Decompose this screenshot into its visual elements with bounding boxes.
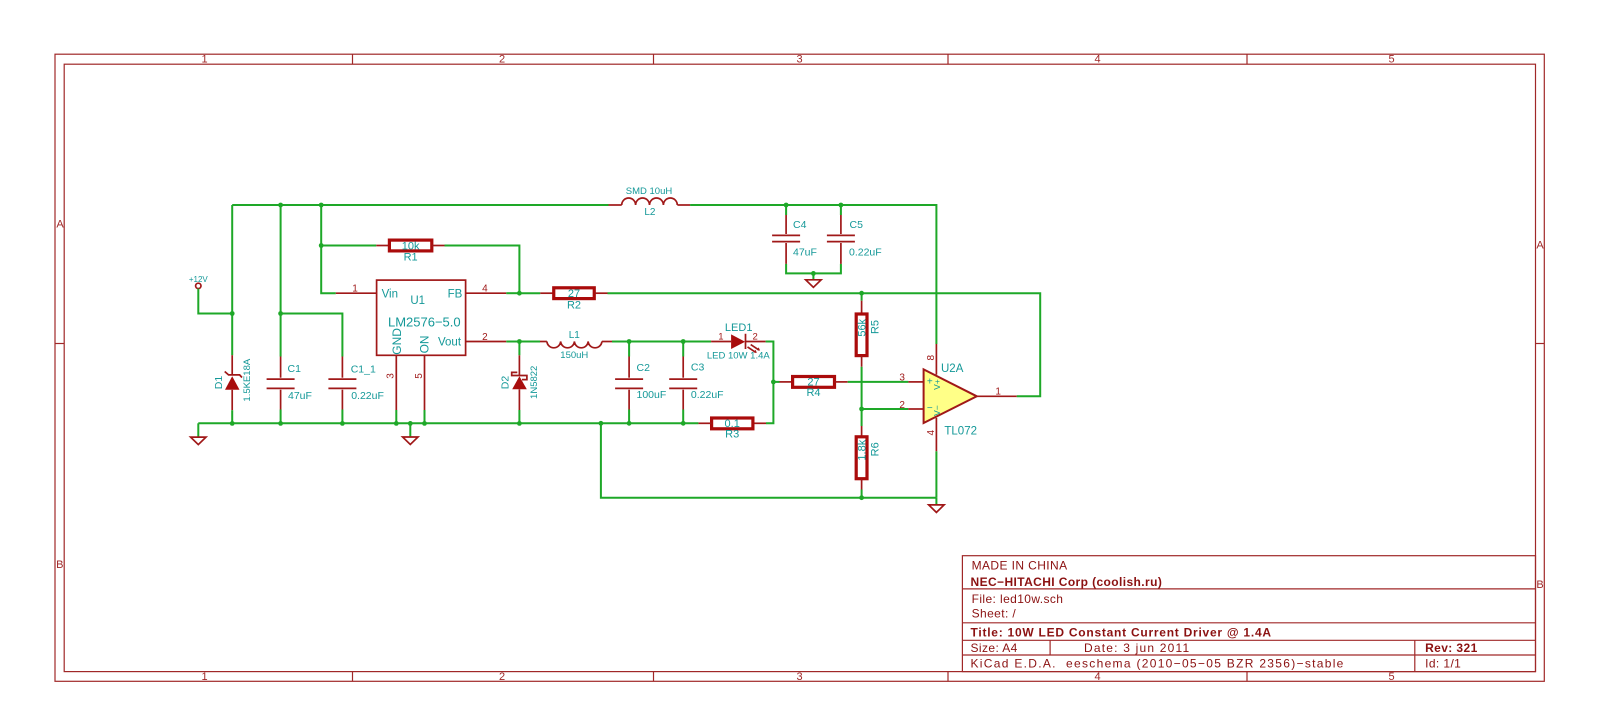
wire C1 vertical (280, 205, 282, 357)
svg-text:1: 1 (201, 671, 207, 683)
svg-text:KiCad E.D.A. eeschema (2010−0: KiCad E.D.A. eeschema (2010−05−05 BZR 23… (971, 657, 1345, 671)
node junction FB (517, 291, 522, 296)
op-amp U2A TL072 (899, 344, 1016, 451)
svg-text:4: 4 (1094, 54, 1100, 66)
svg-text:3: 3 (386, 373, 397, 379)
node junction R6 bottom (859, 495, 864, 500)
svg-text:1: 1 (718, 331, 723, 342)
svg-text:GND: GND (390, 328, 404, 355)
svg-text:R1: R1 (404, 251, 418, 263)
svg-text:150uH: 150uH (560, 350, 588, 361)
node junction R5 top (859, 291, 864, 296)
svg-text:2: 2 (499, 54, 505, 66)
svg-text:C2: C2 (637, 362, 651, 374)
wire top rail right segment to op-amp V+ (690, 205, 936, 344)
svg-text:NEC−HITACHI Corp (coolish.ru): NEC−HITACHI Corp (coolish.ru) (971, 575, 1163, 589)
svg-text:LED1: LED1 (725, 322, 753, 334)
node junction Vin top rail (319, 203, 324, 208)
wire R3 to ground rail (198, 422, 698, 424)
svg-text:5: 5 (414, 373, 425, 379)
svg-text:U1: U1 (410, 295, 425, 307)
svg-text:3: 3 (899, 373, 905, 384)
resistor R3 0.1 (698, 418, 766, 441)
node junction R4 tap (771, 380, 776, 385)
svg-text:R5: R5 (870, 320, 882, 334)
svg-text:A: A (1536, 240, 1544, 252)
capacitor C4 47uF (772, 205, 841, 273)
wire R1 to FB node (445, 246, 520, 294)
svg-text:L2: L2 (644, 207, 656, 218)
svg-text:LM2576−5.0: LM2576−5.0 (388, 314, 461, 329)
svg-text:0.22uF: 0.22uF (691, 389, 724, 401)
svg-text:R3: R3 (725, 429, 739, 441)
ground symbol op-amp (929, 498, 944, 513)
svg-text:C4: C4 (793, 219, 807, 231)
ground symbol under C4/C5 (806, 273, 821, 287)
svg-text:2: 2 (899, 400, 905, 411)
svg-text:ON: ON (418, 335, 432, 353)
svg-text:4: 4 (926, 429, 937, 435)
node junction R1 tap (319, 243, 324, 248)
svg-text:1N5822: 1N5822 (529, 366, 540, 399)
svg-text:0.22uF: 0.22uF (849, 247, 882, 259)
node junction pin2 tap (859, 407, 864, 412)
ground rail junctions (230, 421, 235, 426)
resistor R1 (321, 240, 444, 263)
wire R4 to op-amp pin3 (848, 381, 909, 383)
svg-text:1.5KE18A: 1.5KE18A (242, 358, 253, 401)
svg-text:R2: R2 (567, 300, 581, 312)
wire D1 vertical (231, 205, 233, 355)
svg-text:3: 3 (796, 54, 802, 66)
node junction Vout/D2 (517, 339, 522, 344)
resistor R2 (540, 288, 607, 312)
wire R5 bottom to pin2 node (861, 367, 863, 409)
svg-text:D1: D1 (213, 376, 225, 390)
svg-text:2: 2 (753, 331, 758, 342)
wire LED cathode down to R4/R3 (766, 342, 774, 424)
svg-text:File: led10w.sch: File: led10w.sch (972, 592, 1064, 606)
svg-text:Title: 10W LED Constant Curren: Title: 10W LED Constant Current Driver @… (971, 626, 1272, 640)
svg-text:R6: R6 (870, 442, 882, 456)
svg-text:C1: C1 (288, 363, 302, 375)
svg-text:1: 1 (201, 54, 207, 66)
LED LED1 (707, 322, 770, 362)
svg-text:Vin: Vin (382, 288, 398, 300)
wire gnd rail to bottom rail (601, 423, 937, 497)
svg-text:A: A (56, 219, 64, 231)
svg-text:2: 2 (499, 671, 505, 683)
svg-text:+12V: +12V (189, 275, 209, 284)
svg-text:D2: D2 (499, 376, 511, 390)
svg-text:R4: R4 (806, 387, 820, 399)
svg-text:5: 5 (1388, 54, 1394, 66)
capacitor C1 47uF (267, 357, 312, 424)
svg-text:FB: FB (448, 288, 463, 300)
svg-text:3: 3 (796, 671, 802, 683)
resistor R4 27 (773, 377, 847, 399)
node junction C4 top (784, 203, 789, 208)
ground symbol bottom left (191, 423, 206, 444)
diode D2 1N5822 (499, 342, 540, 424)
svg-text:Date: 3 jun 2011: Date: 3 jun 2011 (1084, 641, 1190, 655)
wire op-amp V- to bottom rail (935, 451, 937, 497)
svg-text:4: 4 (1094, 671, 1100, 683)
title block text (971, 559, 1478, 671)
wire pin2 node to op-amp (862, 408, 909, 410)
svg-text:2: 2 (482, 332, 488, 343)
wire top rail left segment (232, 204, 608, 206)
svg-text:56k: 56k (856, 318, 868, 336)
wire feedback long run to op-amp output (608, 293, 1041, 396)
svg-text:5: 5 (1388, 671, 1394, 683)
wire Vout pin to junction (506, 341, 540, 343)
svg-text:8: 8 (926, 354, 937, 360)
node junction C3 top (681, 339, 686, 344)
wire Vin vertical (321, 205, 336, 293)
svg-text:47uF: 47uF (793, 247, 817, 259)
svg-text:C3: C3 (691, 361, 705, 373)
svg-text:Size: A4: Size: A4 (971, 641, 1018, 655)
svg-text:Sheet: /: Sheet: / (972, 606, 1017, 620)
diode D1 1.5KE18A (TVS) (213, 355, 253, 423)
resistor R6 1.8k (856, 409, 882, 498)
node junction at D1 top branch (230, 311, 235, 316)
wire FB junction to R2 (519, 292, 540, 294)
svg-text:100uF: 100uF (637, 389, 667, 401)
capacitor C1_1 0.22uF (328, 357, 384, 424)
svg-text:B: B (1536, 579, 1543, 591)
wire C1 to C1_1 branch (281, 314, 343, 357)
node junction C2 top (627, 339, 632, 344)
resistor R5 56k (856, 293, 882, 367)
node junction C4/C5 gnd bus (811, 271, 816, 276)
svg-text:V+: V+ (932, 379, 942, 390)
capacitor C3 0.22uF (669, 342, 723, 424)
svg-text:4: 4 (482, 283, 488, 294)
svg-text:Rev: 321: Rev: 321 (1425, 641, 1478, 655)
svg-text:C1_1: C1_1 (351, 363, 376, 375)
wire L1 to LED1 (612, 341, 711, 343)
svg-text:LED 10W 1.4A: LED 10W 1.4A (707, 351, 770, 362)
inductor L2 SMD 10uH (609, 186, 691, 218)
svg-text:Id: 1/1: Id: 1/1 (1425, 657, 1461, 671)
power flag +12V (189, 275, 209, 289)
svg-text:0.22uF: 0.22uF (351, 390, 384, 402)
svg-text:1.8k: 1.8k (856, 439, 868, 460)
ground symbol under U1 (403, 423, 418, 444)
svg-text:V−: V− (932, 405, 942, 416)
svg-text:L1: L1 (569, 330, 581, 341)
svg-text:TL072: TL072 (944, 426, 977, 438)
svg-text:B: B (56, 559, 63, 571)
svg-text:1: 1 (352, 283, 358, 294)
wire FB pin to junction (506, 292, 519, 294)
inductor L1 150uH (540, 330, 612, 361)
capacitor C2 100uF (615, 342, 666, 424)
svg-text:1: 1 (995, 386, 1001, 397)
IC U1 LM2576-5.0 (336, 280, 507, 410)
capacitor C5 0.22uF (827, 205, 882, 264)
svg-text:C5: C5 (850, 219, 864, 231)
wire +12V to D1 column (198, 289, 232, 314)
wire U1 GND/ON green stubs (396, 410, 424, 423)
node junction C5 top (839, 203, 844, 208)
svg-text:MADE IN CHINA: MADE IN CHINA (972, 559, 1068, 573)
svg-text:U2A: U2A (941, 363, 964, 375)
title block (962, 556, 1535, 672)
svg-text:27: 27 (568, 288, 580, 300)
svg-text:SMD 10uH: SMD 10uH (626, 186, 673, 197)
svg-text:Vout: Vout (438, 336, 462, 348)
svg-text:47uF: 47uF (288, 390, 312, 402)
node junction C1 branch (278, 311, 283, 316)
node junction C1 top rail (278, 203, 283, 208)
